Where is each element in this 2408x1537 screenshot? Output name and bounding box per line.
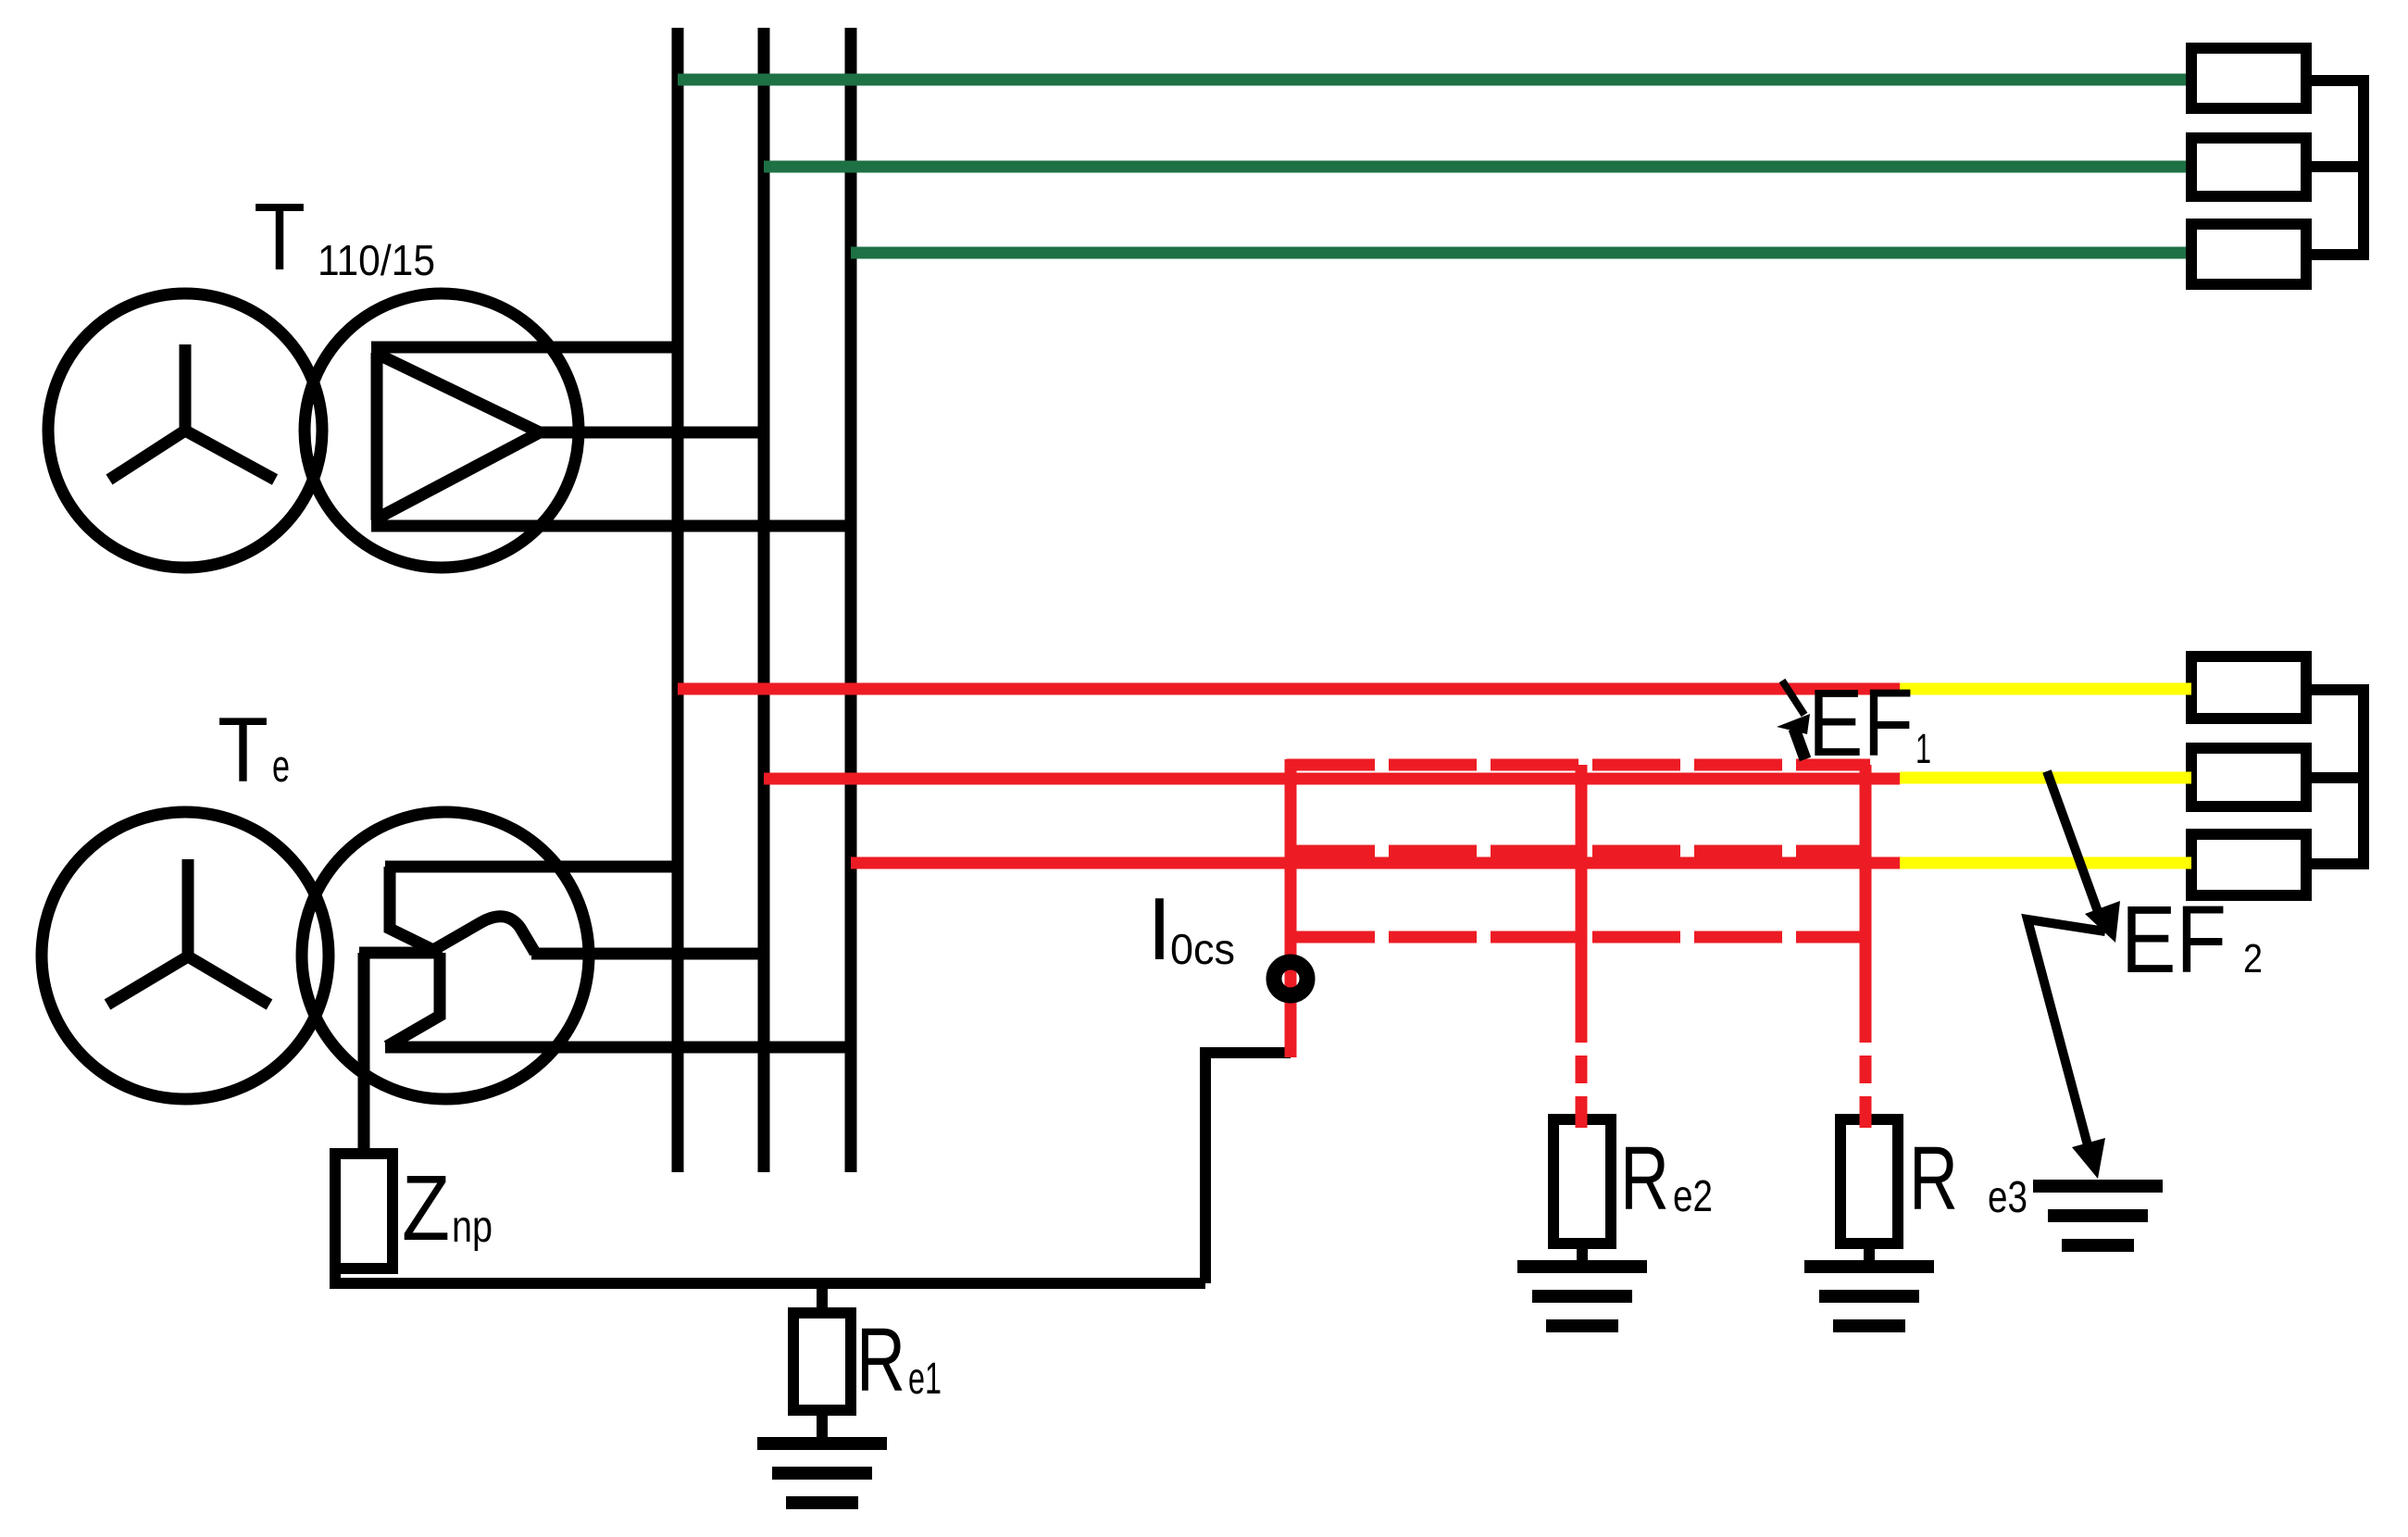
svg-text:R: R — [1620, 1128, 1669, 1229]
svg-text:e: e — [272, 742, 290, 792]
svg-text:EF: EF — [1808, 669, 1914, 776]
svg-text:e3: e3 — [1988, 1173, 2027, 1222]
svg-text:R: R — [856, 1309, 905, 1410]
svg-text:Z: Z — [402, 1156, 450, 1260]
svg-text:T: T — [254, 183, 306, 290]
svg-text:e1: e1 — [908, 1355, 942, 1404]
svg-text:1: 1 — [1915, 725, 1931, 772]
svg-text:I: I — [1147, 880, 1172, 979]
svg-text:R: R — [1909, 1128, 1958, 1229]
svg-text:EF: EF — [2121, 886, 2227, 993]
svg-text:T: T — [218, 698, 268, 801]
svg-text:np: np — [452, 1203, 493, 1252]
svg-text:e2: e2 — [1673, 1172, 1713, 1221]
svg-text:110/15: 110/15 — [318, 236, 435, 284]
svg-text:2: 2 — [2243, 936, 2263, 981]
svg-text:0cs: 0cs — [1170, 925, 1235, 973]
